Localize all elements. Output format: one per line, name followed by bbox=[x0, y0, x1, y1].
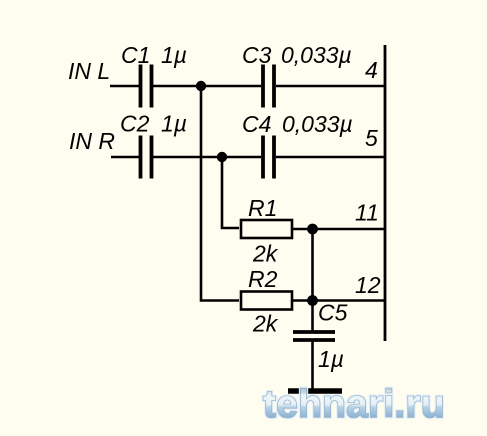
svg-text:1µ: 1µ bbox=[161, 42, 187, 68]
svg-text:12: 12 bbox=[355, 272, 381, 298]
svg-text:C5: C5 bbox=[318, 300, 348, 326]
svg-text:2k: 2k bbox=[252, 311, 279, 337]
capacitor C1 bbox=[121, 42, 187, 108]
capacitor C5 bbox=[293, 300, 348, 373]
svg-text:0,033µ: 0,033µ bbox=[282, 111, 353, 137]
wire IN L input lead bbox=[110, 85, 139, 88]
node junction D (R2 output) bbox=[307, 295, 318, 306]
pin 11 bbox=[355, 200, 379, 226]
resistor R2 bbox=[241, 266, 292, 337]
svg-text:5: 5 bbox=[365, 125, 378, 151]
wire R2 to pin 12 bbox=[292, 299, 385, 302]
pin 4 bbox=[365, 57, 378, 83]
node IN R label bbox=[69, 128, 115, 154]
svg-text:C1: C1 bbox=[121, 42, 150, 68]
wire C5 to ground bbox=[311, 341, 314, 390]
svg-text:C2: C2 bbox=[120, 111, 150, 137]
svg-text:C4: C4 bbox=[242, 111, 271, 137]
svg-text:C3: C3 bbox=[242, 42, 272, 68]
wire C2 to C4 bbox=[153, 156, 261, 159]
svg-text:tehnari.ru: tehnari.ru bbox=[263, 383, 445, 426]
svg-text:0,033µ: 0,033µ bbox=[281, 42, 352, 68]
svg-text:R1: R1 bbox=[248, 195, 277, 221]
capacitor C3 bbox=[242, 42, 352, 108]
wire C3 to pin 4 bbox=[276, 85, 385, 88]
wire junction A down to R2 row bbox=[201, 86, 239, 301]
pin 5 bbox=[365, 125, 378, 151]
capacitor C4 bbox=[242, 111, 353, 179]
svg-text:1µ: 1µ bbox=[318, 346, 344, 372]
svg-text:R2: R2 bbox=[248, 266, 278, 292]
node junction B (C2 output) bbox=[217, 152, 227, 162]
resistor R1 bbox=[241, 195, 292, 267]
wire junction B down to R1 row bbox=[222, 157, 239, 228]
svg-text:11: 11 bbox=[355, 200, 379, 226]
wire junction D down to C5 bbox=[311, 301, 314, 332]
svg-text:4: 4 bbox=[365, 57, 378, 83]
svg-text:2k: 2k bbox=[252, 241, 279, 267]
svg-text:IN R: IN R bbox=[69, 128, 115, 154]
node junction C (R1 output) bbox=[307, 224, 318, 235]
capacitor C2 bbox=[120, 111, 187, 179]
wire C4 to pin 5 bbox=[276, 156, 385, 159]
svg-text:1µ: 1µ bbox=[161, 111, 187, 137]
wire R1 to pin 11 bbox=[292, 228, 385, 231]
IC bus line (pins 4,5,11,12 common edge) bbox=[384, 45, 387, 341]
pin 12 bbox=[355, 272, 381, 298]
node junction A (C1 output) bbox=[196, 81, 206, 91]
wire junction C down to junction D bbox=[311, 229, 314, 301]
svg-text:IN L: IN L bbox=[68, 58, 110, 84]
wire IN R input lead bbox=[111, 156, 139, 159]
watermark tehnari.ru bbox=[263, 383, 445, 426]
node IN L label bbox=[68, 58, 110, 84]
ground bbox=[288, 388, 342, 394]
wire C1 to C3 bbox=[153, 85, 261, 88]
